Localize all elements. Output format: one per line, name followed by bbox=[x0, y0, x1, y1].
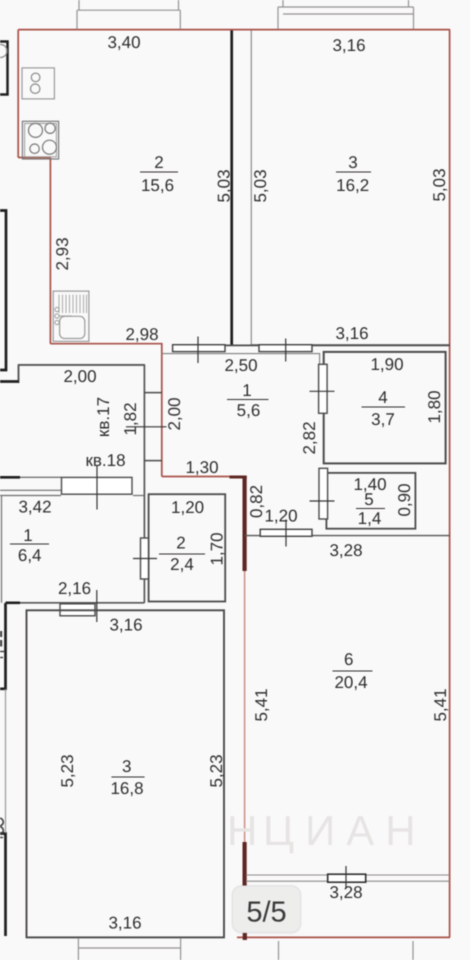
fraction line room 2 (15,6) bbox=[140, 171, 178, 173]
wall left grey thin bbox=[5, 689, 7, 833]
wall maroon thick lower bbox=[243, 842, 247, 886]
svg-text:1,30: 1,30 bbox=[185, 458, 218, 477]
svg-text:3,42: 3,42 bbox=[18, 498, 51, 517]
svg-text:1,82: 1,82 bbox=[121, 402, 140, 435]
FRACTION LINES bbox=[10, 172, 405, 777]
wall black bar bbox=[0, 476, 20, 479]
wall room6 top bbox=[245, 535, 450, 537]
DIVIDER room2/room3 bbox=[232, 31, 252, 346]
door sill room6 bbox=[260, 529, 312, 536]
tick room4 door bbox=[310, 390, 335, 392]
svg-text:2,16: 2,16 bbox=[58, 579, 91, 598]
svg-text:5,6: 5,6 bbox=[237, 401, 261, 420]
room 4 box bbox=[324, 352, 446, 464]
wall bottom red bbox=[237, 936, 450, 938]
NEIGHBOUR ROOM1 bbox=[2, 496, 145, 623]
room n2 box bbox=[149, 494, 226, 601]
wall divider black bbox=[230, 31, 233, 346]
sink cabinet bbox=[22, 68, 54, 99]
wall hallway left red bbox=[161, 344, 163, 477]
room 5 box bbox=[326, 473, 415, 529]
svg-text:2: 2 bbox=[154, 153, 163, 172]
fraction line room 1 (5,6) bbox=[227, 399, 269, 401]
KITCHEN FIXTURES bbox=[22, 68, 89, 342]
svg-text:5,03: 5,03 bbox=[215, 169, 234, 202]
svg-text:3,16: 3,16 bbox=[109, 616, 142, 635]
svg-text:5/5: 5/5 bbox=[246, 897, 286, 929]
svg-text:2,00: 2,00 bbox=[63, 367, 96, 386]
room n3 box bbox=[27, 610, 225, 937]
wall top red bbox=[18, 29, 450, 31]
fraction line room 3 (16,2) bbox=[336, 171, 371, 173]
door room4 bbox=[319, 364, 328, 413]
svg-text:0,90: 0,90 bbox=[395, 483, 414, 516]
wall loggia line2 bbox=[246, 880, 450, 882]
wall segment between doors bbox=[225, 344, 252, 346]
shaft bottom bbox=[144, 460, 161, 462]
tick room3 door bbox=[285, 339, 287, 362]
wall maroon corner 1,30 bbox=[230, 476, 247, 479]
svg-text:2,82: 2,82 bbox=[300, 421, 319, 454]
BALCONIES bbox=[77, 0, 414, 960]
svg-text:2,98: 2,98 bbox=[125, 325, 158, 344]
NEIGHBOUR ROOM3 bbox=[27, 610, 225, 937]
tick room5 door bbox=[310, 500, 335, 502]
wall room1 bottom black bbox=[6, 601, 21, 604]
svg-text:3,16: 3,16 bbox=[332, 36, 365, 55]
svg-text:3,28: 3,28 bbox=[329, 541, 362, 560]
wall hallway inner line bbox=[162, 354, 320, 365]
svg-text:2,93: 2,93 bbox=[53, 237, 72, 270]
wall room1 bottom grey bbox=[20, 602, 145, 604]
BADGE 5/5 bbox=[231, 885, 302, 935]
ROOM4 bbox=[310, 352, 446, 464]
ROOM6 WINDOW BOTTOM bbox=[246, 866, 450, 889]
fraction line room 6 (20,4) bbox=[333, 670, 373, 672]
svg-text:5,41: 5,41 bbox=[431, 688, 450, 721]
svg-text:кв.17: кв.17 bbox=[94, 397, 113, 437]
svg-text:1,20: 1,20 bbox=[264, 507, 297, 526]
svg-text:1,90: 1,90 bbox=[370, 355, 403, 374]
svg-text:20,4: 20,4 bbox=[334, 673, 367, 692]
wall left lower bbox=[0, 834, 6, 937]
svg-text:3: 3 bbox=[348, 153, 357, 172]
wall room1 left bbox=[1, 496, 3, 603]
glyph fragments left edge bbox=[0, 631, 4, 838]
svg-text:5,03: 5,03 bbox=[430, 168, 449, 201]
kitchen sink unit bbox=[53, 291, 89, 341]
TEXT LABELS horizontal bbox=[18, 33, 404, 933]
svg-text:ЦИАН: ЦИАН bbox=[263, 807, 427, 854]
door sill kv18 bbox=[62, 477, 133, 494]
svg-text:3,16: 3,16 bbox=[335, 324, 368, 343]
wall thin to door bbox=[20, 476, 61, 478]
svg-text:16,2: 16,2 bbox=[336, 176, 369, 195]
window room6 bbox=[328, 874, 366, 882]
balcony bottom left bbox=[78, 938, 180, 960]
svg-text:кв.18: кв.18 bbox=[85, 451, 125, 470]
LEFT EDGE BLACK PIECES bbox=[0, 211, 19, 937]
wall room3 bottom grey bbox=[252, 344, 450, 346]
door room5 bbox=[319, 468, 328, 519]
door sill room3 bbox=[259, 345, 312, 352]
ROOM5 bbox=[310, 468, 416, 528]
balcony bottom right bbox=[279, 941, 414, 960]
door n2 bbox=[141, 538, 149, 579]
wall maroon thick upper bbox=[243, 476, 247, 571]
KV18 DOOR AREA bbox=[0, 465, 145, 510]
fixture top-left bbox=[0, 42, 8, 95]
wall left bar bbox=[0, 380, 19, 383]
balcony top A bbox=[77, 0, 180, 29]
WATERMARK bbox=[227, 807, 427, 854]
HALLWAY TOP WALLS bbox=[162, 337, 450, 365]
wall kitchen left lower red bbox=[49, 158, 51, 344]
svg-text:1: 1 bbox=[23, 526, 32, 545]
shaft top bbox=[144, 392, 161, 394]
svg-text:1: 1 bbox=[242, 381, 251, 400]
fraction line neighbour room 3 (16,8) bbox=[111, 776, 144, 778]
svg-text:2: 2 bbox=[176, 534, 185, 553]
door sill kitchen bbox=[173, 345, 225, 352]
svg-text:0,82: 0,82 bbox=[247, 485, 266, 518]
wall left upper red bbox=[17, 30, 19, 158]
tick window room6 bbox=[345, 866, 347, 889]
svg-text:3,28: 3,28 bbox=[329, 883, 362, 902]
fraction line room 4 (3,7) bbox=[362, 406, 406, 408]
wall grey line a bbox=[0, 489, 61, 491]
svg-text:4: 4 bbox=[378, 388, 387, 407]
tick kitchen door bbox=[197, 337, 199, 364]
stove bbox=[22, 121, 58, 159]
TEXT LABELS rotated bbox=[53, 168, 450, 787]
svg-text:2,4: 2,4 bbox=[170, 555, 194, 574]
svg-text:5,23: 5,23 bbox=[58, 754, 77, 787]
wall divider grey bbox=[250, 31, 252, 346]
wall kitchen bottom red bbox=[50, 343, 162, 345]
door sill 2,16 bbox=[60, 604, 95, 616]
svg-text:2,50: 2,50 bbox=[224, 356, 257, 375]
wall left mid bbox=[0, 603, 6, 689]
svg-text:5: 5 bbox=[364, 490, 373, 509]
tick dim 2.00 bbox=[126, 426, 167, 428]
wall grey line c bbox=[133, 495, 145, 497]
wall kv17 top bbox=[18, 364, 145, 366]
tick kv18 door bbox=[96, 465, 98, 510]
wall right red bbox=[449, 30, 451, 938]
fraction line room 5 (1,4) bbox=[356, 508, 385, 510]
svg-text:3: 3 bbox=[122, 757, 131, 776]
svg-text:6: 6 bbox=[344, 650, 353, 669]
svg-text:1,70: 1,70 bbox=[208, 532, 227, 565]
svg-text:3,16: 3,16 bbox=[108, 914, 141, 933]
wall maroon cap bottom bbox=[243, 933, 247, 940]
wall room1 right bbox=[143, 496, 145, 603]
tick 2,16 door bbox=[96, 590, 98, 622]
svg-text:5,23: 5,23 bbox=[207, 754, 226, 787]
NEIGHBOUR ROOM2 bbox=[133, 494, 225, 601]
wall kv17 right bbox=[143, 365, 145, 496]
svg-text:3,40: 3,40 bbox=[107, 33, 140, 52]
svg-text:1,80: 1,80 bbox=[425, 390, 444, 423]
wall 1,30 bottom red bbox=[162, 476, 245, 478]
fraction line neighbour room 2 (2,4) bbox=[159, 553, 205, 555]
fraction line neighbour room 1 (6,4) bbox=[10, 543, 49, 545]
svg-text:6,4: 6,4 bbox=[18, 546, 42, 565]
svg-text:16,8: 16,8 bbox=[110, 779, 143, 798]
wall left C upper bbox=[0, 211, 6, 371]
svg-text:1,4: 1,4 bbox=[358, 509, 382, 528]
svg-text:5,03: 5,03 bbox=[251, 169, 270, 202]
wall kv17 left stub bbox=[18, 365, 20, 383]
NEIGHBOUR KV17 bbox=[18, 365, 167, 496]
tick room6 door bbox=[285, 520, 287, 547]
balcony top B bbox=[278, 0, 414, 29]
tick n2 door bbox=[133, 558, 157, 560]
wall loggia line1 bbox=[246, 874, 450, 876]
wall room6 left thin red bbox=[244, 477, 246, 937]
svg-text:2,00: 2,00 bbox=[165, 397, 184, 430]
wall kitchen step red bbox=[18, 157, 50, 159]
ROOM6 TOP bbox=[245, 520, 450, 547]
svg-text:3,7: 3,7 bbox=[371, 410, 395, 429]
svg-text:15,6: 15,6 bbox=[141, 176, 174, 195]
wall grey line b bbox=[0, 495, 61, 497]
svg-text:5,41: 5,41 bbox=[252, 688, 271, 721]
svg-text:1,20: 1,20 bbox=[171, 498, 204, 517]
